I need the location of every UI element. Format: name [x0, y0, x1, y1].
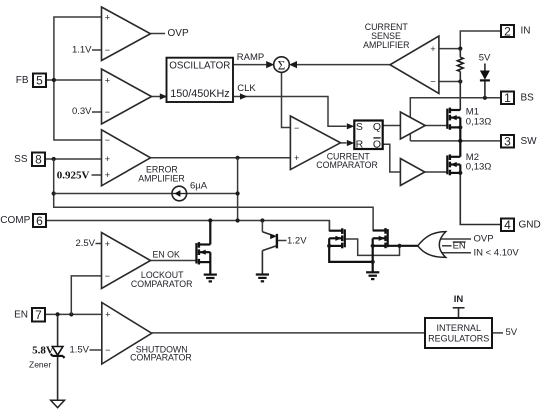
wire IN pin to sense resistor — [460, 31, 501, 49]
svg-text:1.1V: 1.1V — [72, 44, 92, 55]
wire M2 source to GND pin — [460, 173, 501, 225]
svg-text:FB: FB — [16, 75, 29, 86]
wire bootstrap diode cathode to BS — [484, 81, 486, 98]
transistor M1 — [447, 108, 460, 130]
svg-text:OVP: OVP — [474, 233, 494, 244]
svg-text:2: 2 — [504, 24, 511, 38]
comparator current comparator — [290, 116, 340, 170]
wire OR input ENbar — [442, 245, 452, 247]
wire BS line — [410, 98, 501, 118]
node SS bus / 6uA tap — [52, 191, 56, 195]
label ENbar or-input — [453, 241, 466, 252]
diode bootstrap — [480, 71, 490, 81]
svg-text:+: + — [294, 153, 299, 163]
svg-text:−: − — [430, 77, 435, 87]
comparator shutdown — [102, 303, 152, 365]
block internal regulators — [425, 318, 492, 348]
label M2 — [466, 152, 479, 163]
wire M2 drain from SW — [459, 141, 461, 157]
svg-text:5V: 5V — [506, 327, 518, 338]
label CLK — [237, 83, 256, 94]
svg-text:5: 5 — [36, 74, 43, 88]
wire EN pin lead — [45, 313, 102, 315]
wire EN to lockout minus input — [71, 276, 101, 315]
wire 1.5V stub — [90, 349, 102, 351]
svg-text:BS: BS — [521, 93, 535, 104]
wire EN OK to lockout MOSFET gate — [151, 260, 197, 262]
svg-text:0.3V: 0.3V — [72, 106, 92, 117]
node BS / bootstrap diode junction — [483, 96, 487, 100]
label M1 — [466, 107, 479, 118]
node SS junction — [52, 157, 56, 161]
wire OR input OVP — [440, 238, 472, 240]
wire error amp output to current comparator + — [151, 157, 291, 159]
wire COMP bus vertical — [237, 158, 239, 221]
svg-text:−: − — [105, 271, 110, 281]
wire 5V output of regulators — [492, 332, 503, 334]
svg-text:SS: SS — [14, 154, 28, 165]
buffer driver low-side — [400, 159, 424, 186]
wire IN stub into regulators — [453, 308, 465, 318]
svg-text:+: + — [105, 154, 110, 164]
comparator lockout — [102, 233, 151, 289]
svg-text:8: 8 — [35, 153, 42, 167]
comparator OVP — [102, 7, 151, 61]
svg-text:RAMP: RAMP — [237, 52, 264, 63]
svg-text:+: + — [430, 44, 435, 54]
svg-text:COMPARATOR: COMPARATOR — [131, 279, 193, 289]
svg-text:+: + — [105, 75, 110, 85]
svg-text:+: + — [105, 239, 110, 249]
label LOCKOUT COMPARATOR — [131, 270, 193, 289]
wire COMP-MOSFET gate route to OR output — [345, 239, 400, 255]
svg-text:IN < 4.10V: IN < 4.10V — [474, 248, 520, 259]
label IN<4.10V or-input — [474, 248, 520, 259]
zener diode 5.8V — [51, 347, 65, 359]
node source tie junction — [327, 244, 331, 248]
pin 2 IN — [501, 24, 531, 38]
pin 7 EN — [14, 308, 45, 322]
pin 1 BS — [501, 91, 534, 105]
wire COMP discharge MOSFET drain riser — [328, 221, 330, 231]
wire driver1 lower rail stub — [409, 132, 411, 141]
label 1.5V — [69, 344, 89, 355]
svg-text:EN: EN — [14, 309, 28, 320]
ground SS MOSFET — [366, 272, 379, 279]
svg-text:7: 7 — [35, 308, 42, 322]
label SHUTDOWN COMPARATOR — [130, 344, 192, 362]
svg-text:SW: SW — [521, 136, 538, 147]
svg-text:0,13Ω: 0,13Ω — [466, 162, 492, 173]
label 0.925V — [57, 170, 90, 182]
label 5.8V — [32, 344, 54, 356]
wire OR input IN<4.10V — [440, 252, 472, 254]
node FB junction — [52, 78, 56, 82]
svg-text:Zener: Zener — [29, 359, 51, 369]
wire RAMP to summer — [234, 61, 275, 68]
label EN OK — [153, 249, 181, 259]
node COMP bus / 6uA junction — [236, 191, 240, 195]
comparator FB/0.3V — [102, 69, 152, 124]
svg-text:2.5V: 2.5V — [75, 238, 95, 249]
pin 6 COMP — [0, 214, 46, 228]
svg-text:INTERNAL: INTERNAL — [436, 323, 481, 333]
svg-text:OVP: OVP — [168, 28, 189, 39]
svg-text:GND: GND — [519, 220, 541, 231]
ground BJT emitter — [256, 275, 269, 282]
pin 3 SW — [501, 135, 537, 149]
wire lockout MOSFET drain to COMP — [209, 221, 211, 245]
wire current sense amp - stub — [439, 81, 460, 83]
svg-text:CLK: CLK — [237, 83, 256, 94]
wire BJT collector tap — [261, 221, 263, 232]
wire summer to current comparator minus — [282, 72, 291, 127]
svg-text:+: + — [105, 310, 110, 320]
buffer driver high-side — [400, 112, 425, 139]
svg-text:OSCILLATOR: OSCILLATOR — [169, 60, 230, 71]
wire left MOSFET source down — [329, 238, 373, 262]
svg-text:AMPLIFIER: AMPLIFIER — [138, 173, 184, 183]
transistor COMP discharge MOSFET — [329, 228, 345, 248]
wire M1 source to SW — [459, 118, 461, 141]
ground lockout MOSFET — [204, 275, 217, 282]
wire current sense amp + stub — [439, 48, 460, 50]
or-gate fault OR — [418, 232, 446, 258]
svg-text:1.5V: 1.5V — [69, 344, 89, 355]
svg-text:0.925V: 0.925V — [57, 170, 90, 182]
wire current sense amp output to summer — [289, 61, 390, 68]
svg-text:AMPLIFIER: AMPLIFIER — [363, 40, 409, 50]
wire OR gate output line — [388, 245, 418, 247]
wire right MOSFET body-source vertical to ground — [372, 238, 374, 272]
transistor SS discharge MOSFET — [373, 228, 388, 248]
svg-text:Σ: Σ — [278, 58, 286, 73]
svg-text:COMP: COMP — [0, 215, 30, 226]
wire 6uA current source line — [54, 193, 238, 195]
label OVP or-input — [474, 233, 494, 244]
label 5V regulators — [506, 327, 518, 338]
svg-text:+: + — [105, 12, 110, 22]
wire FB bus to OVP+ and error-amp minus — [54, 17, 102, 140]
block oscillator — [167, 58, 234, 102]
node EN / lockout junction — [69, 312, 73, 316]
op-amp error amplifier — [102, 130, 151, 186]
label M2 0.13ohm — [466, 162, 492, 173]
node COMP line junction A — [208, 218, 212, 222]
wire CLK to latch S input — [234, 93, 355, 129]
wire latch Qbar to low-side driver — [383, 144, 401, 172]
svg-text:REGULATORS: REGULATORS — [428, 333, 489, 343]
transistor Q1 1.2V clamp — [262, 232, 277, 275]
wire 5V to bootstrap diode anode — [484, 64, 486, 71]
label 6uA — [190, 180, 208, 191]
svg-text:5V: 5V — [479, 53, 491, 64]
svg-text:IN: IN — [454, 294, 464, 305]
svg-text:S: S — [356, 121, 363, 133]
wire FB comparator output to oscillator — [152, 93, 168, 99]
summer sigma — [274, 57, 290, 73]
ground EN arrow — [51, 400, 65, 407]
svg-text:6µA: 6µA — [190, 180, 208, 191]
svg-text:−: − — [105, 345, 110, 355]
node EN / zener junction — [56, 312, 60, 316]
latch SR — [354, 121, 382, 151]
wire SS pin lead — [45, 158, 102, 160]
svg-text:6: 6 — [36, 214, 43, 228]
svg-text:1: 1 — [504, 91, 511, 105]
wire 1.1V stub — [92, 49, 102, 51]
svg-text:1.2V: 1.2V — [287, 235, 307, 246]
wire SW rail — [410, 140, 501, 142]
label 0.3V — [72, 106, 92, 117]
label IN regulators — [454, 294, 464, 305]
node ground tie junction — [371, 260, 375, 264]
svg-text:R: R — [356, 139, 364, 151]
label 1.1V — [72, 44, 92, 55]
label 5V bootstrap — [479, 53, 491, 64]
node error amp output junction — [236, 156, 240, 160]
label CURRENT COMPARATOR — [316, 151, 378, 169]
wire SS bus down and across to SS-discharge MOSFET drain — [54, 159, 373, 231]
current source 6uA — [172, 186, 187, 201]
node sense resistor top — [458, 47, 462, 51]
svg-text:+: + — [105, 170, 110, 180]
resistor sense — [457, 49, 463, 82]
wire lockout MOSFET source to ground — [209, 252, 211, 274]
node SW junction — [458, 139, 462, 143]
wire IN bus down to M1 drain — [459, 82, 461, 111]
svg-text:EN OK: EN OK — [153, 249, 181, 259]
svg-text:3: 3 — [504, 135, 511, 149]
wire M2 gate lead — [425, 171, 448, 173]
pin 4 GND — [501, 218, 541, 232]
wire latch Q to high-side driver — [383, 125, 401, 127]
svg-text:Q: Q — [373, 121, 381, 133]
svg-text:Q: Q — [373, 139, 381, 151]
label 2.5V — [75, 238, 95, 249]
wire current comparator output to R — [341, 140, 355, 146]
svg-text:150/450KHz: 150/450KHz — [170, 88, 229, 100]
wire 0.3V stub — [92, 111, 102, 113]
svg-text:IN: IN — [521, 26, 531, 37]
wire OVP comparator output — [151, 33, 166, 35]
node COMP line junction B — [236, 218, 240, 222]
node OR line / right MOSFET source — [371, 244, 375, 248]
node M1 source junction — [458, 125, 462, 129]
svg-text:−: − — [105, 107, 110, 117]
wire zener branch upper — [57, 314, 59, 346]
svg-text:4: 4 — [504, 218, 511, 232]
svg-text:−: − — [294, 123, 299, 133]
svg-text:−: − — [105, 135, 110, 145]
wire zener branch lower — [57, 356, 59, 400]
wire 2.5V stub — [96, 243, 102, 245]
wire FB pin to comparator + input — [46, 79, 102, 81]
label RAMP — [237, 52, 264, 63]
svg-text:−: − — [105, 45, 110, 55]
svg-text:0,13Ω: 0,13Ω — [466, 117, 492, 128]
transistor lockout MOSFET — [196, 242, 210, 264]
wire 0.925V stub — [92, 174, 102, 176]
pin 5 FB — [16, 74, 46, 88]
label Zener — [29, 359, 51, 369]
node sense resistor bottom — [458, 79, 462, 83]
wire shutdown comparator output to regulators — [152, 332, 425, 334]
label OVP — [168, 28, 189, 39]
svg-text:COMPARATOR: COMPARATOR — [316, 160, 378, 170]
label ERROR AMPLIFIER — [138, 165, 184, 184]
label 1.2V — [287, 235, 307, 246]
label M1 0.13ohm — [466, 117, 492, 128]
wire 1.2V base stub — [277, 240, 287, 242]
svg-text:5.8V: 5.8V — [32, 344, 54, 356]
wire M2 body-source tie — [459, 165, 461, 173]
node M2 source junction — [458, 171, 462, 175]
wire M1 gate lead — [425, 125, 447, 127]
svg-text:COMPARATOR: COMPARATOR — [130, 352, 192, 362]
amplifier current sense — [390, 36, 439, 94]
node OR line / gate riser junction — [397, 244, 401, 248]
transistor M2 — [447, 154, 460, 175]
wire COMP pin line — [46, 221, 342, 231]
label CURRENT SENSE AMPLIFIER — [363, 22, 409, 50]
pin 8 SS — [14, 153, 45, 167]
node COMP line junction C — [260, 218, 264, 222]
